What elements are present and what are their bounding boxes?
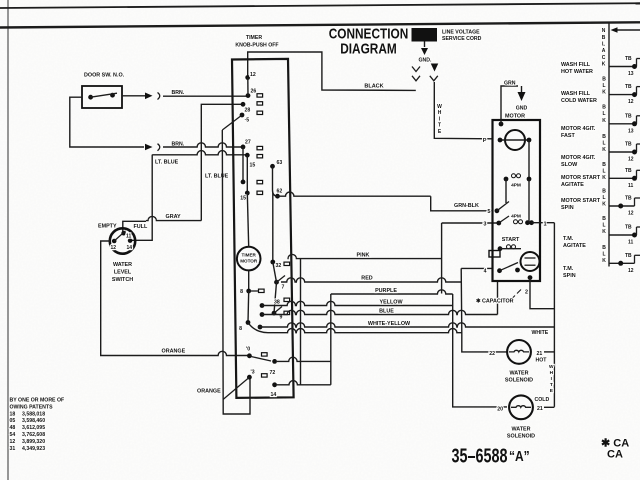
svg-text:1: 1 xyxy=(544,222,547,228)
svg-text:WATER: WATER xyxy=(511,427,530,433)
svg-text:WASH FILL: WASH FILL xyxy=(561,62,591,68)
svg-text:FAST: FAST xyxy=(561,133,575,139)
svg-text:11: 11 xyxy=(126,234,132,240)
svg-text:W: W xyxy=(549,364,554,370)
svg-text:PINK: PINK xyxy=(357,253,370,259)
svg-text:LT. BLUE: LT. BLUE xyxy=(205,174,229,180)
svg-text:7: 7 xyxy=(282,285,285,291)
svg-text:4: 4 xyxy=(484,269,487,275)
svg-text:4PM: 4PM xyxy=(511,183,521,189)
svg-text:AGITATE: AGITATE xyxy=(561,182,584,188)
svg-text:KNOB-PUSH OFF: KNOB-PUSH OFF xyxy=(235,43,278,49)
svg-text:TВ: TВ xyxy=(625,196,632,202)
svg-text:FULL: FULL xyxy=(134,224,148,230)
svg-text:MOTOR 4GIT.: MOTOR 4GIT. xyxy=(561,126,596,132)
svg-text:12: 12 xyxy=(111,245,117,251)
svg-text:PURPLE: PURPLE xyxy=(375,288,397,294)
svg-text:B: B xyxy=(602,77,606,83)
svg-text:TВ: TВ xyxy=(625,113,632,119)
svg-text:4,349,923: 4,349,923 xyxy=(22,446,45,452)
svg-text:GND: GND xyxy=(516,106,528,112)
svg-text:3,588,018: 3,588,018 xyxy=(22,411,45,417)
svg-text:H: H xyxy=(438,110,442,116)
svg-text:TВ: TВ xyxy=(625,142,632,148)
svg-text:·5: ·5 xyxy=(245,118,250,124)
svg-text:CA: CA xyxy=(607,449,623,461)
svg-text:TВ: TВ xyxy=(625,225,632,231)
svg-text:L: L xyxy=(602,140,605,146)
svg-text:5: 5 xyxy=(487,209,490,215)
svg-text:L: L xyxy=(602,223,605,229)
svg-text:3,899,320: 3,899,320 xyxy=(22,439,45,445)
svg-text:“A”: “A” xyxy=(509,448,530,465)
svg-text:ORANGE: ORANGE xyxy=(197,389,221,395)
svg-text:12: 12 xyxy=(10,439,16,445)
svg-text:K: K xyxy=(602,258,606,264)
svg-text:4PM: 4PM xyxy=(511,213,521,219)
svg-text:SOLENOID: SOLENOID xyxy=(505,378,533,384)
svg-text:62: 62 xyxy=(277,189,283,195)
svg-text:21: 21 xyxy=(537,351,543,357)
svg-text:TВ: TВ xyxy=(625,253,632,259)
svg-text:B: B xyxy=(602,188,606,194)
svg-text:TВ: TВ xyxy=(625,84,632,90)
svg-text:'0: '0 xyxy=(246,347,250,353)
svg-text:8: 8 xyxy=(239,326,242,332)
svg-text:T.M.: T.M. xyxy=(563,236,574,242)
svg-text:TВ: TВ xyxy=(625,56,632,62)
svg-text:38: 38 xyxy=(274,300,280,306)
svg-text:L: L xyxy=(602,83,605,89)
svg-text:48: 48 xyxy=(10,425,16,431)
svg-text:WATER: WATER xyxy=(113,262,132,268)
svg-text:ORANGE: ORANGE xyxy=(162,348,186,354)
svg-text:T.M.: T.M. xyxy=(563,266,574,272)
svg-text:BLACK: BLACK xyxy=(364,83,383,89)
svg-text:11: 11 xyxy=(628,183,634,189)
svg-text:BLUE: BLUE xyxy=(379,309,394,315)
svg-text:MOTOR START: MOTOR START xyxy=(561,175,601,181)
svg-text:2: 2 xyxy=(525,290,528,296)
svg-text:L: L xyxy=(602,252,605,258)
svg-text:W: W xyxy=(437,104,442,110)
svg-text:15: 15 xyxy=(240,196,246,202)
svg-text:28: 28 xyxy=(245,108,251,114)
svg-text:27: 27 xyxy=(245,140,251,146)
svg-text:3: 3 xyxy=(483,222,486,228)
svg-text:K: K xyxy=(602,147,606,153)
svg-text:MOTOR: MOTOR xyxy=(240,259,258,264)
svg-text:63: 63 xyxy=(277,160,283,166)
svg-text:SERVICE CORD: SERVICE CORD xyxy=(442,36,482,42)
svg-text:SWITCH: SWITCH xyxy=(112,277,133,283)
svg-text:SOLENOID: SOLENOID xyxy=(507,434,535,440)
svg-text:12: 12 xyxy=(628,211,634,217)
svg-text:SLOW: SLOW xyxy=(561,162,578,168)
svg-text:K: K xyxy=(602,202,606,208)
svg-text:LEVEL: LEVEL xyxy=(114,270,132,276)
svg-text:AGITATE: AGITATE xyxy=(563,243,586,249)
svg-text:B: B xyxy=(602,105,606,111)
svg-text:14: 14 xyxy=(271,392,277,398)
svg-text:OWING PATENTS: OWING PATENTS xyxy=(10,404,54,410)
svg-text:12: 12 xyxy=(628,268,634,274)
svg-text:WHITE-YELLOW: WHITE-YELLOW xyxy=(368,321,411,327)
svg-text:BRN.: BRN. xyxy=(172,90,185,96)
svg-text:T: T xyxy=(550,382,553,388)
svg-text:14: 14 xyxy=(127,245,133,251)
svg-text:YELLOW: YELLOW xyxy=(379,300,403,306)
svg-text:T: T xyxy=(438,123,441,129)
svg-text:K: K xyxy=(602,61,606,67)
svg-text:DIAGRAM: DIAGRAM xyxy=(340,40,397,57)
svg-text:TВ: TВ xyxy=(625,168,632,174)
svg-text:COLD: COLD xyxy=(535,397,550,403)
svg-text:GRAY: GRAY xyxy=(166,214,181,220)
svg-text:12: 12 xyxy=(628,157,634,163)
svg-text:GRN-BLK: GRN-BLK xyxy=(454,203,479,209)
svg-text:MOTOR: MOTOR xyxy=(505,114,525,120)
svg-text:11: 11 xyxy=(628,240,634,246)
svg-text:B: B xyxy=(602,216,606,222)
svg-text:18: 18 xyxy=(10,411,16,417)
svg-text:SPIN: SPIN xyxy=(561,205,574,211)
svg-text:HOT WATER: HOT WATER xyxy=(561,69,593,75)
svg-text:B: B xyxy=(602,134,606,140)
svg-text:B: B xyxy=(602,35,606,41)
svg-text:MOTOR START: MOTOR START xyxy=(561,198,601,204)
svg-text:L: L xyxy=(602,195,605,201)
svg-text:B: B xyxy=(602,162,606,168)
svg-text:12: 12 xyxy=(250,72,256,78)
svg-text:GRN: GRN xyxy=(504,81,516,87)
svg-text:L: L xyxy=(602,169,605,175)
svg-text:COLD WATER: COLD WATER xyxy=(561,98,597,104)
svg-text:15: 15 xyxy=(250,163,256,169)
svg-text:SPIN: SPIN xyxy=(563,273,576,279)
svg-text:13: 13 xyxy=(628,71,634,77)
svg-text:K: K xyxy=(602,90,606,96)
svg-text:MOTOR 4GIT.: MOTOR 4GIT. xyxy=(561,155,596,161)
svg-text:B: B xyxy=(602,245,606,251)
svg-text:9: 9 xyxy=(280,315,283,321)
svg-text:22: 22 xyxy=(489,351,495,357)
svg-text:L: L xyxy=(602,42,605,48)
svg-text:K: K xyxy=(602,118,606,124)
svg-text:72: 72 xyxy=(270,370,276,376)
svg-text:20: 20 xyxy=(497,407,503,413)
svg-text:26: 26 xyxy=(251,89,257,95)
svg-text:05: 05 xyxy=(10,418,16,424)
svg-text:'3: '3 xyxy=(251,370,255,376)
svg-text:✱ CAPACITOR: ✱ CAPACITOR xyxy=(476,299,514,305)
svg-text:31: 31 xyxy=(10,446,16,452)
svg-text:12: 12 xyxy=(628,99,634,105)
svg-text:BY ONE OR MORE OF: BY ONE OR MORE OF xyxy=(10,398,65,404)
svg-text:H: H xyxy=(550,370,554,376)
svg-text:LINE VOLTAGE: LINE VOLTAGE xyxy=(442,30,480,36)
svg-text:3,598,460: 3,598,460 xyxy=(22,418,45,424)
svg-text:8: 8 xyxy=(240,289,243,295)
svg-text:EMPTY: EMPTY xyxy=(98,224,117,230)
svg-text:GND.: GND. xyxy=(419,58,433,64)
svg-text:35–6588: 35–6588 xyxy=(452,444,508,467)
svg-text:54: 54 xyxy=(10,432,16,438)
svg-text:21: 21 xyxy=(537,406,543,412)
svg-text:WASH FILL: WASH FILL xyxy=(561,91,591,97)
svg-text:K: K xyxy=(602,175,606,181)
svg-text:RED: RED xyxy=(361,276,372,282)
svg-text:3,762,608: 3,762,608 xyxy=(22,432,45,438)
svg-text:DOOR SW. N.O.: DOOR SW. N.O. xyxy=(84,73,125,79)
svg-text:TIMER: TIMER xyxy=(242,253,257,258)
svg-text:L: L xyxy=(602,111,605,117)
svg-text:TIMER: TIMER xyxy=(246,35,262,41)
svg-text:A: A xyxy=(602,48,606,54)
svg-text:C: C xyxy=(602,55,606,61)
svg-text:K: K xyxy=(602,229,606,235)
svg-text:WHITE: WHITE xyxy=(532,330,549,336)
svg-text:32: 32 xyxy=(276,263,282,269)
svg-text:LT. BLUE: LT. BLUE xyxy=(155,160,179,166)
svg-text:HOT: HOT xyxy=(536,358,548,364)
svg-text:N: N xyxy=(602,28,606,34)
svg-text:P: P xyxy=(483,138,487,144)
svg-text:START: START xyxy=(502,237,520,243)
svg-text:WATER: WATER xyxy=(509,371,528,377)
svg-text:13: 13 xyxy=(628,128,634,134)
svg-text:3,612,095: 3,612,095 xyxy=(22,425,45,431)
